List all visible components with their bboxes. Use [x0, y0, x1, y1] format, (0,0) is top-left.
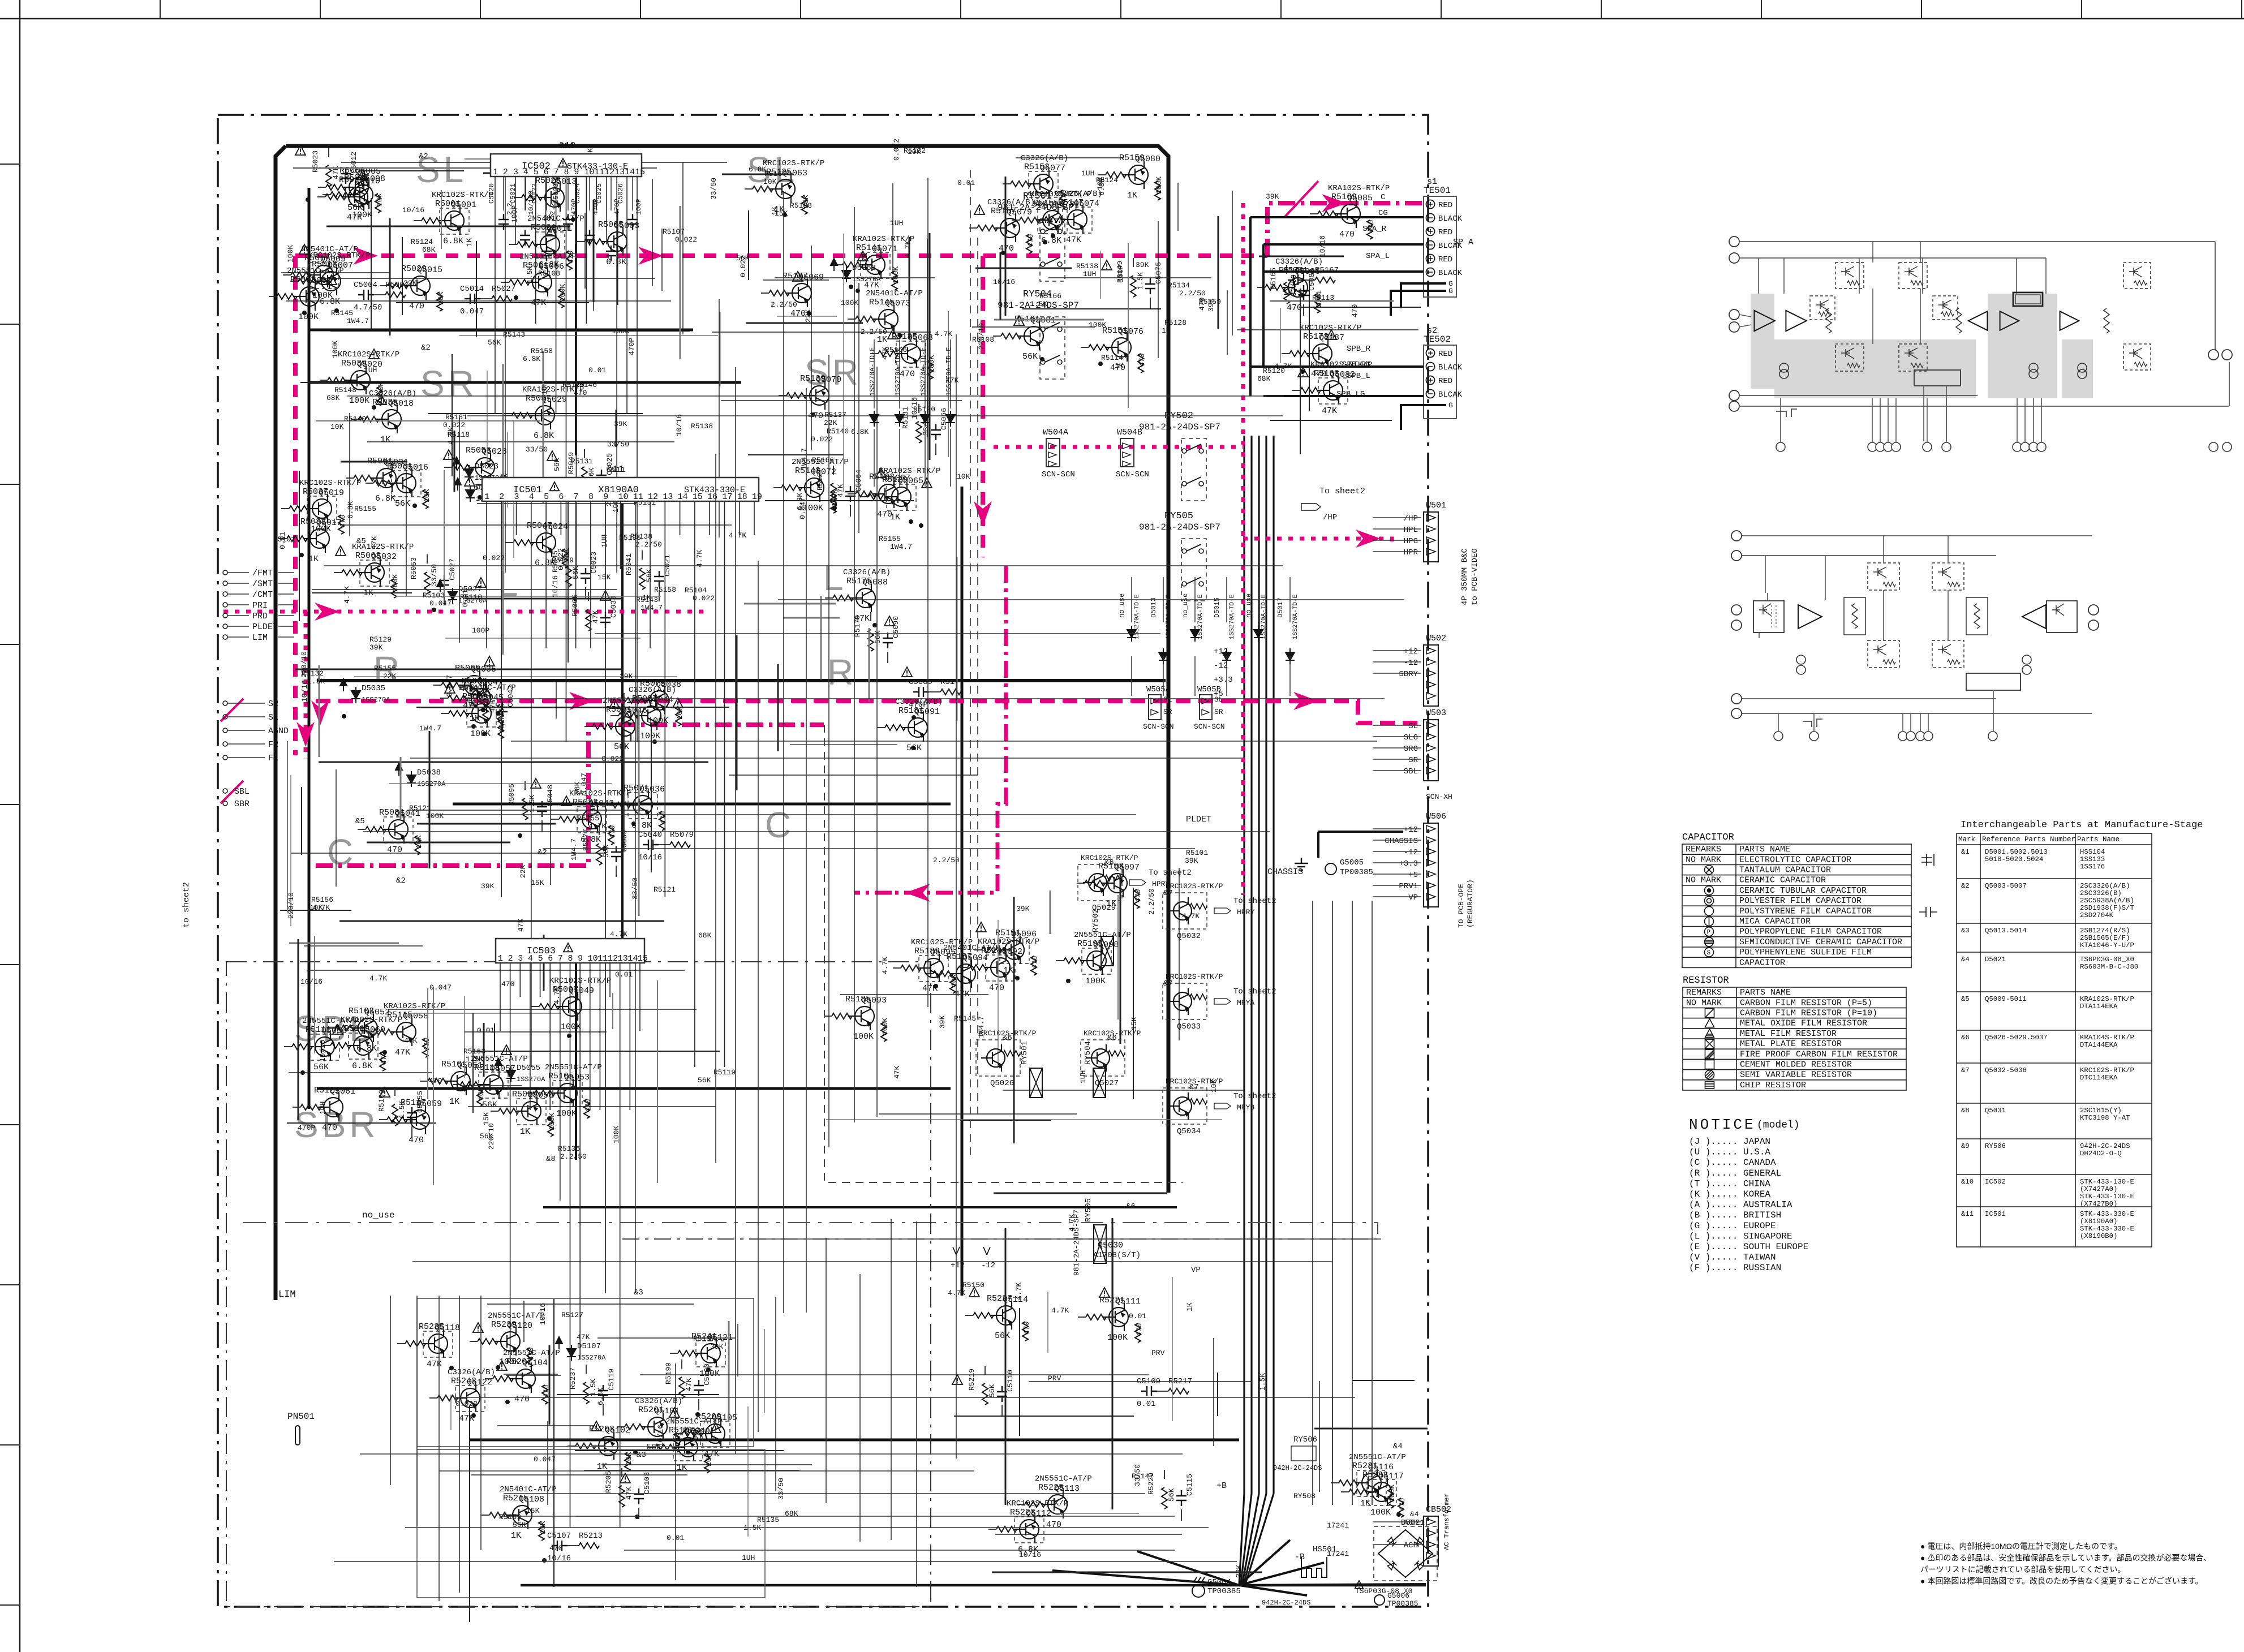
top ruler tick [1601, 0, 1602, 19]
svg-text:KRC102S-RTK/P: KRC102S-RTK/P [2080, 1066, 2134, 1074]
/FMT wire [278, 572, 294, 573]
svg-text:&8: &8 [546, 1155, 556, 1164]
svg-text:470: 470 [1367, 220, 1375, 233]
svg-text:R5145: R5145 [331, 309, 353, 317]
drop wire [1859, 258, 1860, 294]
svg-text:no_use: no_use [1118, 593, 1126, 618]
wire [1016, 157, 1124, 158]
svg-text:&10: &10 [1961, 1178, 1974, 1186]
transistor Q5102 [593, 1432, 618, 1460]
right column vertical wire [1372, 901, 1373, 1505]
wire [367, 441, 674, 442]
drop [1872, 242, 1873, 263]
svg-text:KRA102S-RTK/P: KRA102S-RTK/P [341, 1016, 402, 1025]
resistor R5235 [405, 1341, 425, 1346]
transistor Q5118 pack box [423, 1331, 453, 1357]
wire [445, 638, 640, 639]
LIM wire [278, 636, 294, 638]
wire [603, 1404, 604, 1416]
pin wire [2041, 398, 2042, 442]
svg-text:10/16: 10/16 [300, 680, 309, 702]
wire [531, 1006, 539, 1007]
wire [861, 496, 869, 497]
long wire bottom [439, 1470, 974, 1472]
svg-text:D5035: D5035 [362, 684, 385, 693]
resistor R5142 [892, 271, 897, 290]
svg-text:12: 12 [604, 167, 614, 177]
svg-text:SR: SR [1163, 708, 1172, 716]
svg-text:0.022: 0.022 [892, 139, 901, 161]
W506 +5 wire [1373, 874, 1421, 875]
warning mark [974, 205, 985, 214]
svg-text:+12: +12 [1404, 647, 1418, 656]
svg-text:PRV: PRV [1151, 1349, 1165, 1357]
svg-text:470: 470 [1135, 1323, 1144, 1336]
relay RY505 box [1181, 539, 1206, 601]
center thick vertical bus [961, 487, 964, 1296]
junction node [602, 846, 607, 851]
resistor R5076 [676, 707, 681, 726]
op-amp U-IC502 [491, 154, 642, 177]
svg-text:19: 19 [752, 492, 762, 502]
wire [1029, 1381, 1252, 1382]
svg-text:6.8K: 6.8K [443, 236, 463, 246]
diode D5035 [351, 687, 360, 703]
capacitor C5100 [694, 1380, 704, 1396]
TE501 terminal RED [1426, 227, 1435, 236]
diode wire [1226, 656, 1227, 696]
wire [729, 775, 978, 776]
svg-text:(A )..... AUSTRALIA: (A )..... AUSTRALIA [1689, 1200, 1792, 1210]
wire [330, 331, 690, 332]
wire [374, 294, 385, 295]
svg-text:6.8K: 6.8K [346, 501, 355, 519]
FR stub wire [227, 743, 265, 745]
warning mark [858, 251, 868, 261]
svg-text:39K: 39K [614, 420, 627, 428]
junction node [478, 495, 482, 500]
svg-text:-12: -12 [1214, 661, 1228, 670]
junction node [412, 504, 417, 508]
op-amp U-IC503 pin 9 line [579, 963, 581, 1359]
svg-text:R5155: R5155 [577, 814, 599, 823]
svg-text:no_use: no_use [1245, 593, 1253, 618]
wire [389, 1009, 697, 1010]
warning mark [609, 699, 620, 708]
svg-text:10/16: 10/16 [539, 1303, 547, 1325]
svg-text:D5055: D5055 [517, 1064, 540, 1073]
warning mark [1099, 1288, 1110, 1297]
svg-text:10/16: 10/16 [675, 414, 683, 436]
diode D5014 [1190, 626, 1200, 642]
svg-text:(K )..... KOREA: (K )..... KOREA [1689, 1189, 1770, 1199]
drop [1883, 590, 1884, 640]
svg-text:R5104: R5104 [685, 586, 707, 595]
wire [584, 726, 592, 727]
transistor Q5011 [535, 230, 560, 259]
svg-text:&10: &10 [558, 141, 576, 152]
resistor R5227 [973, 1313, 994, 1318]
transistor cell [2123, 263, 2151, 289]
svg-text:2N5551C-AT/P: 2N5551C-AT/P [1035, 1474, 1092, 1483]
resistor R5017 [291, 272, 311, 278]
svg-text:1K: 1K [1115, 362, 1124, 370]
resistor R5205 [619, 1486, 625, 1507]
transistor Q5117 pack box [1367, 1479, 1396, 1505]
junction node [832, 506, 837, 510]
junction node [514, 295, 518, 300]
wire [1003, 183, 1011, 184]
star node wire [1239, 1540, 1290, 1585]
transistor Q5020 [345, 366, 370, 394]
wire [1352, 1380, 1415, 1381]
svg-text:100K: 100K [881, 1018, 889, 1035]
pin wire [1920, 713, 1921, 731]
warning mark [1326, 330, 1336, 339]
capacitor C5048 [537, 801, 547, 817]
wire [366, 1031, 373, 1032]
wire [483, 1023, 485, 1077]
op-amp U-IC502 pin 3 line [515, 177, 516, 244]
transistor Q5032 [359, 558, 384, 587]
svg-text:SR: SR [805, 352, 862, 393]
transistor Q5092 pack box [986, 955, 1015, 981]
wire [680, 206, 681, 359]
resistor R5125 [753, 186, 773, 192]
svg-text:4.7K: 4.7K [343, 586, 351, 604]
wire [553, 1299, 554, 1587]
svg-text:RY501: RY501 [1020, 1041, 1029, 1065]
svg-text:&6: &6 [1003, 1034, 1012, 1043]
svg-text:39K: 39K [369, 643, 383, 652]
svg-text:Q5015: Q5015 [417, 265, 442, 275]
diode D5006 [895, 411, 904, 427]
svg-text:1.5K: 1.5K [1136, 272, 1145, 290]
wire [975, 268, 1072, 269]
svg-text:Q5031: Q5031 [1985, 1107, 2006, 1115]
svg-text:1K: 1K [308, 554, 319, 564]
wire [417, 823, 556, 825]
svg-text:Q5088: Q5088 [862, 578, 888, 587]
transistor Q5093 [849, 1002, 874, 1030]
wire [298, 939, 299, 1120]
resistor R5243 [437, 1395, 458, 1401]
long wire [751, 1238, 1381, 1240]
svg-text:METAL FILM RESISTOR: METAL FILM RESISTOR [1740, 1029, 1837, 1039]
wire [300, 382, 346, 383]
resistor R5203 [575, 1443, 596, 1449]
wire [497, 1425, 595, 1426]
legend symbol sqslash [1705, 1009, 1714, 1018]
pin wire [1923, 386, 1924, 441]
long wire [640, 1374, 1149, 1375]
svg-text:47K: 47K [404, 1036, 418, 1045]
svg-text:1SS270A-TD-E: 1SS270A-TD-E [1292, 594, 1299, 639]
svg-text:47K: 47K [591, 610, 600, 623]
svg-text:0.047: 0.047 [460, 307, 484, 316]
resistor R5064 [391, 579, 397, 598]
rail [1739, 395, 1978, 396]
svg-text:6.8K: 6.8K [606, 257, 626, 267]
wire [929, 691, 940, 692]
diode wire [874, 339, 875, 408]
W506 heavy drop [1317, 832, 1319, 858]
svg-text:&3: &3 [1961, 927, 1970, 935]
wire [291, 853, 606, 854]
svg-text:22K: 22K [1235, 1564, 1243, 1578]
resistor R5177 [940, 689, 961, 695]
resistor R5103 [335, 1025, 355, 1031]
wire [318, 187, 326, 188]
diode wire [1194, 656, 1196, 696]
svg-text:&6: &6 [1961, 1034, 1970, 1042]
wire [281, 508, 289, 509]
wire [777, 316, 837, 317]
svg-text:470P: 470P [627, 338, 636, 355]
svg-text:470P: 470P [298, 1124, 315, 1132]
wire [1164, 1470, 1165, 1479]
resistor R5229 [1162, 1487, 1167, 1509]
W502 SBRY wire [1373, 673, 1421, 674]
connector W506 body [1424, 823, 1438, 907]
wire [502, 721, 503, 732]
cell resistor [1847, 363, 1860, 368]
junction node [856, 289, 860, 293]
svg-text:6: 6 [544, 167, 549, 177]
svg-text:TS6P03G-08_X0: TS6P03G-08_X0 [2080, 956, 2134, 963]
resistor [1974, 604, 1980, 629]
resistor R5091 [592, 724, 613, 729]
svg-text:47K: 47K [893, 1065, 901, 1079]
svg-text:NO MARK: NO MARK [1686, 998, 1722, 1008]
svg-text:4P 350MM B&C: 4P 350MM B&C [1460, 548, 1469, 605]
svg-text:0.047: 0.047 [429, 983, 452, 992]
wire [879, 1113, 1077, 1115]
wire [304, 945, 423, 947]
top ruler tick [1441, 0, 1442, 19]
left ruler tick [0, 804, 20, 805]
legend symbol tri2 [1705, 1029, 1714, 1038]
wire [1181, 1509, 1182, 1521]
svg-text:DTC114EKA: DTC114EKA [2080, 1074, 2118, 1082]
capacitor C5090 [883, 633, 893, 648]
resistor R5113 [461, 1082, 481, 1087]
wire [1050, 890, 1051, 934]
transistor Q5088 [850, 584, 875, 612]
wire [597, 1337, 736, 1339]
signal flow arrow [1293, 692, 1318, 710]
svg-text:RED: RED [1438, 255, 1452, 264]
transistor Q5108 [507, 1501, 532, 1529]
svg-text:4.7K: 4.7K [935, 330, 952, 338]
transistor Q5070 [804, 381, 829, 410]
connector W502 body [1424, 645, 1438, 706]
warning mark [369, 349, 379, 359]
svg-text:470: 470 [1287, 303, 1302, 313]
svg-text:4.7K: 4.7K [1182, 912, 1200, 920]
transistor Q5101 [642, 1413, 667, 1441]
wire [893, 967, 901, 969]
relay RY504 contact a [1041, 327, 1045, 332]
svg-text:2SB1565(E/F): 2SB1565(E/F) [2080, 934, 2130, 942]
svg-text:2.2/50: 2.2/50 [560, 1152, 587, 1161]
wire [1003, 1090, 1244, 1091]
bias resistor [1956, 308, 1962, 333]
svg-text:D5001.5002.5013: D5001.5002.5013 [1985, 848, 2048, 856]
svg-text:100K: 100K [470, 729, 491, 739]
svg-text:39K: 39K [710, 1343, 724, 1351]
op-amp U-IC502 pin 14 line [626, 177, 627, 414]
transistor Q5111 [1103, 1303, 1128, 1331]
svg-text:R5146: R5146 [575, 381, 597, 389]
svg-text:&4: &4 [1393, 1442, 1403, 1451]
resistor of Q5032 [1190, 904, 1207, 909]
buffer [2022, 605, 2046, 629]
transistor Q5016 [391, 469, 416, 497]
svg-text:8: 8 [588, 492, 594, 502]
resistor R5223 [996, 1526, 1017, 1532]
TE501 terminal BLACK [1426, 214, 1435, 222]
CB502 ACH wire [1373, 1544, 1421, 1545]
junction node [496, 1365, 500, 1370]
resistor R5160 [1155, 181, 1160, 200]
svg-text:W504B: W504B [1117, 428, 1142, 437]
svg-text:C3326(A/B): C3326(A/B) [1275, 257, 1323, 266]
resistor R5240 [527, 1348, 532, 1367]
TE502 terminal BLACK [1426, 363, 1435, 371]
Q5026 dashed pack [976, 1040, 1020, 1076]
svg-text:Q5079: Q5079 [1007, 208, 1032, 217]
long vertical wire [758, 561, 759, 1432]
cell resistor [1819, 312, 1831, 316]
svg-text:&6: &6 [1104, 858, 1114, 867]
op-amp U-IC502 pin 5 line [535, 177, 536, 324]
svg-text:39K: 39K [1016, 905, 1030, 913]
svg-text:W505A: W505A [1146, 685, 1171, 694]
svg-text:HPL: HPL [1404, 526, 1418, 535]
svg-text:56K: 56K [1167, 1488, 1176, 1502]
wire [602, 805, 610, 806]
resistor R5084 [608, 825, 614, 845]
transistor cell [1932, 563, 1964, 590]
SR section bus [309, 381, 741, 384]
svg-text:1.5K: 1.5K [1030, 300, 1047, 308]
transistor Q5019 pack box [307, 496, 337, 522]
transistor Q5013 [539, 183, 564, 212]
magenta route mid end [854, 891, 892, 895]
svg-text:STK-433-330-E: STK-433-330-E [2080, 1225, 2134, 1233]
connector W501 body [1424, 512, 1438, 562]
svg-text:to sheet2: to sheet2 [182, 882, 191, 928]
block1 bottom pins [1776, 442, 1785, 451]
resistor R5171 [1265, 285, 1286, 290]
long wire [435, 814, 1136, 815]
svg-text:56K: 56K [395, 499, 410, 509]
resistor R5127 [831, 483, 836, 505]
svg-text:2.2/50: 2.2/50 [635, 540, 662, 549]
long wire [410, 758, 1241, 759]
transistor Q5060 pack box [349, 1033, 378, 1059]
rail [2215, 242, 2216, 350]
wire [464, 996, 465, 1078]
wire [481, 1439, 587, 1440]
junction node [306, 197, 310, 202]
svg-text:&8: &8 [1961, 1107, 1970, 1115]
wire [523, 1301, 525, 1342]
svg-text:100K: 100K [548, 1113, 556, 1130]
svg-text:15K: 15K [526, 1507, 540, 1515]
resistor R5106 [584, 1099, 590, 1118]
transistor Q5029 [1083, 869, 1107, 896]
wire [459, 335, 718, 336]
long wire [324, 565, 1283, 566]
/SMT stub wire [227, 583, 249, 584]
warning mark [1102, 260, 1112, 270]
junction node [382, 1050, 387, 1055]
resistor R5109 [392, 1104, 398, 1126]
wire [1310, 213, 1318, 214]
wire [744, 603, 836, 605]
warning mark [976, 922, 986, 932]
svg-text:SL: SL [1163, 695, 1172, 704]
svg-text:(V )..... TAIWAN: (V )..... TAIWAN [1689, 1253, 1776, 1263]
warning mark [299, 244, 309, 254]
svg-text:STK-433-130-E: STK-433-130-E [2080, 1178, 2134, 1186]
svg-text:ACH: ACH [1404, 1518, 1418, 1528]
rail [1742, 698, 1996, 699]
svg-text:/CMT: /CMT [252, 590, 273, 600]
capacitor C5040 [643, 840, 659, 850]
W503 SLG wire [1373, 736, 1421, 737]
svg-text:(U )..... U.S.A: (U )..... U.S.A [1689, 1147, 1770, 1158]
rail [2229, 362, 2230, 406]
wire [1218, 216, 1219, 329]
wire [850, 505, 851, 517]
svg-text:4: 4 [529, 492, 534, 502]
top ruler tick [320, 0, 321, 19]
W506 +3.3 wire [1373, 862, 1421, 863]
svg-text:1UH: 1UH [319, 1102, 327, 1115]
warning mark [531, 778, 541, 788]
transistor Q5085 [1335, 200, 1360, 228]
svg-text:C3326(A/B): C3326(A/B) [629, 686, 676, 695]
svg-text:R: R [827, 652, 857, 692]
svg-text:R5177: R5177 [940, 678, 964, 687]
bundle fan wire [1239, 1494, 1244, 1585]
svg-text:C5004: C5004 [354, 281, 377, 290]
svg-text:METAL PLATE RESISTOR: METAL PLATE RESISTOR [1740, 1039, 1842, 1049]
transistor Q5116 pack box [1357, 1470, 1386, 1496]
block1 gray shade left band [1751, 294, 1774, 389]
wire [748, 454, 844, 455]
svg-text:Q5093: Q5093 [861, 996, 887, 1005]
svg-text:4: 4 [523, 167, 528, 177]
junction node [934, 984, 938, 988]
svg-text:4.7/50: 4.7/50 [354, 303, 382, 312]
C section heavy bus [317, 1087, 951, 1090]
junction node [299, 553, 304, 557]
cell resistor [1883, 582, 1895, 587]
legend symbol circx [1705, 866, 1714, 875]
svg-text:SBL: SBL [1404, 767, 1418, 776]
svg-text:R5134: R5134 [1168, 281, 1190, 290]
wire [1270, 420, 1392, 421]
long vertical wire bottom [480, 1296, 482, 1550]
warning mark [673, 698, 683, 708]
wire [283, 274, 291, 276]
svg-text:+3.3: +3.3 [1214, 676, 1233, 685]
svg-text:10: 10 [588, 954, 598, 963]
